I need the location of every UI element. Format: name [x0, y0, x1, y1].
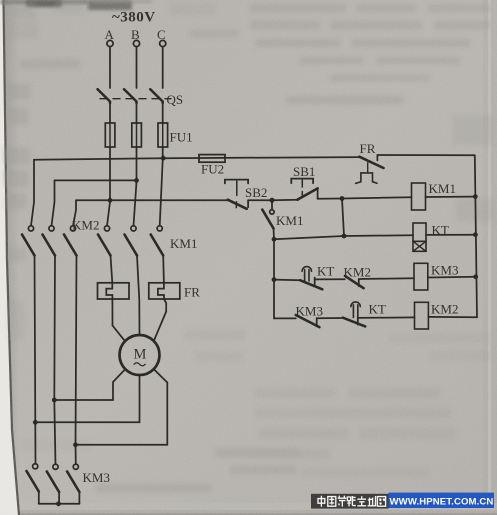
contactor KM2 main contact 1	[22, 226, 35, 256]
svg-text:KM1: KM1	[276, 213, 303, 228]
time relay KT delayed contact (NO, row4)	[343, 302, 386, 327]
svg-text:~380V: ~380V	[112, 10, 156, 26]
page left edge: white margin and dark edge line	[0, 0, 19, 515]
contactor KM1 main contact 3	[151, 226, 164, 256]
junction dot row2/right rail	[473, 232, 478, 237]
svg-text:KM3: KM3	[83, 470, 110, 485]
svg-text:WWW.HPNET.COM.CN: WWW.HPNET.COM.CN	[390, 497, 494, 508]
junction dot phase B tap	[134, 178, 139, 183]
junction dot KM1 aux bottom	[272, 237, 277, 242]
wire top rail right: FR to right rail corner	[377, 154, 474, 156]
QS mechanical link (dashed)	[100, 98, 171, 100]
contactor KM3 contact (row4)	[296, 304, 323, 328]
svg-text:KM1: KM1	[170, 236, 197, 251]
wire phase C: FU1 down to KM1 contact, junction at top rail	[160, 147, 163, 226]
node C (phase terminal)	[157, 27, 166, 47]
svg-text:SB1: SB1	[293, 164, 315, 179]
svg-text:C: C	[157, 27, 166, 42]
wire SB2 to node	[248, 199, 272, 201]
wire row4: KM3 contact to KT delayed contact	[317, 317, 343, 319]
junction dot row2/branch column	[342, 234, 347, 239]
thermal relay FR heater element 2	[149, 283, 180, 299]
coil KT (time relay, with delay box)	[413, 223, 449, 252]
pushbutton SB2 (start, NO)	[225, 180, 268, 209]
junction dot row1/right rail	[473, 194, 478, 199]
pushbutton SB1 (stop, NC)	[291, 164, 317, 200]
wire row3: KT contact to KM2 contact	[315, 278, 345, 280]
coil KM2	[415, 302, 459, 330]
contactor KM2 main contact 3	[64, 226, 77, 256]
wire phase C drop to QS	[162, 47, 164, 88]
motor M	[120, 335, 160, 375]
junction dot row3 left	[272, 277, 277, 282]
junction dot star point	[56, 501, 61, 506]
wire row3: left to KT delayed contact	[274, 279, 300, 282]
wire row3: KM3 coil to right rail	[428, 276, 476, 279]
junction dot line2 / motor lead	[52, 398, 57, 403]
wire QS pole1 to FU1	[109, 103, 111, 123]
node A (phase terminal)	[105, 27, 115, 47]
wire row2 left: KM1 aux bottom to branch column	[274, 236, 344, 239]
contactor KM3 star contact 3	[67, 464, 79, 504]
contactor KM3 star contact 2	[47, 464, 59, 504]
svg-text:KM2: KM2	[431, 302, 458, 317]
contactor KM1 auxiliary contact (self-hold, NO)	[262, 200, 303, 239]
svg-text:FU2: FU2	[201, 162, 224, 177]
contactor KM2 main contact 2	[43, 226, 56, 256]
wire motor lead top-left diagonal	[113, 326, 125, 341]
coil KM1	[412, 181, 456, 210]
watermark: blue box with URL	[389, 493, 495, 508]
wire row1: KM1 coil to right rail	[426, 196, 475, 198]
junction dot row1/branch column	[340, 196, 345, 201]
thermal relay FR heater element 1	[98, 283, 130, 299]
svg-text:KT: KT	[317, 264, 334, 279]
wire row4: left corner to KM3 contact	[274, 317, 296, 319]
wire phase B drop to QS	[136, 47, 138, 88]
time relay KT delayed contact (NC, row3)	[300, 264, 334, 290]
wire phase B: FU1 down to KM1 contact, junction at tap	[134, 147, 137, 226]
wire row2: to KT coil	[344, 234, 413, 237]
svg-text:KT: KT	[369, 302, 386, 317]
wire row2: KT coil to right rail	[426, 234, 475, 236]
wire right rail vertical	[475, 155, 477, 317]
wire KM2 branch line2 upper: bend down to contact	[52, 180, 55, 225]
wire KM2 line3 lower: contact to bottom junction and KM3 contact	[76, 256, 77, 465]
contactor KM1 main contact 2	[125, 226, 138, 256]
wire phase C lower: KM1 contact through FR heater to bend	[158, 256, 166, 312]
svg-text:FR: FR	[184, 285, 200, 300]
junction dot phase A tap	[108, 198, 113, 203]
contactor KM1 main contact 1	[98, 226, 111, 256]
thermal relay FR contact (NC)	[356, 141, 384, 183]
svg-text:KM3: KM3	[431, 263, 458, 278]
fuse FU1 element phase B	[132, 123, 142, 147]
wire phase A: FU1 down to KM1 contact, junction at row1	[107, 147, 110, 226]
junction dot line3 / motor lead	[73, 442, 78, 447]
wire motor lead bottom-right to line3	[76, 369, 168, 445]
junction dot row3/right rail	[473, 274, 478, 279]
fuse FU2	[199, 155, 225, 163]
wire KM2 line1 lower: contact to bottom junction and KM3 contact	[35, 256, 36, 464]
contactor KM2 interlock contact (NC, row3)	[344, 265, 371, 289]
wire QS pole3 to FU1	[162, 103, 164, 123]
switch QS pole 2	[124, 89, 137, 103]
wire row4: KM2 coil to right rail corner	[428, 316, 477, 318]
wire row3: KM2 contact to KM3 coil	[359, 277, 414, 280]
wire tap phase A to KM2 line3 and row1 to SB2	[76, 199, 228, 201]
wire row4: KT contact to KM2 coil	[358, 316, 415, 319]
wire phase B lower: KM1 contact to motor top	[137, 256, 140, 335]
wire top rail: left bend through phase C junction, FU2, to FR	[34, 157, 359, 160]
switch QS pole 3	[150, 89, 163, 103]
svg-text:QS: QS	[167, 92, 184, 107]
dark streak along top edge	[0, 0, 88, 4]
node B (phase terminal)	[131, 27, 140, 47]
svg-text:KM1: KM1	[429, 181, 456, 196]
svg-text:M: M	[134, 347, 147, 363]
junction dot node (SB2/KM1 aux/SB1)	[270, 198, 275, 203]
switch QS pole 1	[98, 89, 111, 103]
wire tap phase B to KM2 line2	[55, 179, 137, 181]
svg-text:FR: FR	[360, 141, 376, 156]
coil KM3	[414, 263, 458, 291]
fuse FU1 element phase A	[105, 123, 115, 147]
wire motor lead bottom-middle to line1	[35, 375, 139, 422]
junction dot line1 / motor lead	[33, 420, 38, 425]
watermark: dark box with site name	[311, 494, 389, 509]
svg-text:KM2: KM2	[72, 218, 99, 233]
wire row1: node to SB1	[272, 199, 298, 201]
wire KM2 branch line1 upper: bend down to contact	[31, 160, 34, 226]
wire row1: SB1 to KM1 coil	[318, 197, 412, 199]
wire phase A drop to QS	[109, 47, 111, 88]
junction dot phase C / top rail	[161, 156, 166, 161]
wire KM2 branch line3 upper: bend down to contact	[73, 200, 76, 226]
wire motor lead top-right diagonal	[154, 312, 166, 341]
contactor KM3 star contact 1	[27, 464, 39, 504]
wire left column: row2 down to row4	[273, 239, 275, 318]
wire motor lead bottom-left to line2	[54, 369, 125, 400]
fuse FU1 element phase C	[158, 123, 168, 147]
wire phase A lower: KM1 contact through FR heater to motor bend	[106, 256, 112, 326]
svg-text:SB2: SB2	[245, 185, 267, 200]
svg-text:FU1: FU1	[170, 130, 193, 145]
wire star point bottom bar	[39, 503, 80, 505]
wire branch column: row1 down to row2	[342, 199, 344, 237]
wire QS pole2 to FU1	[136, 103, 138, 123]
wire KM2 line2 lower: contact to bottom junction and KM3 contact	[54, 256, 55, 465]
